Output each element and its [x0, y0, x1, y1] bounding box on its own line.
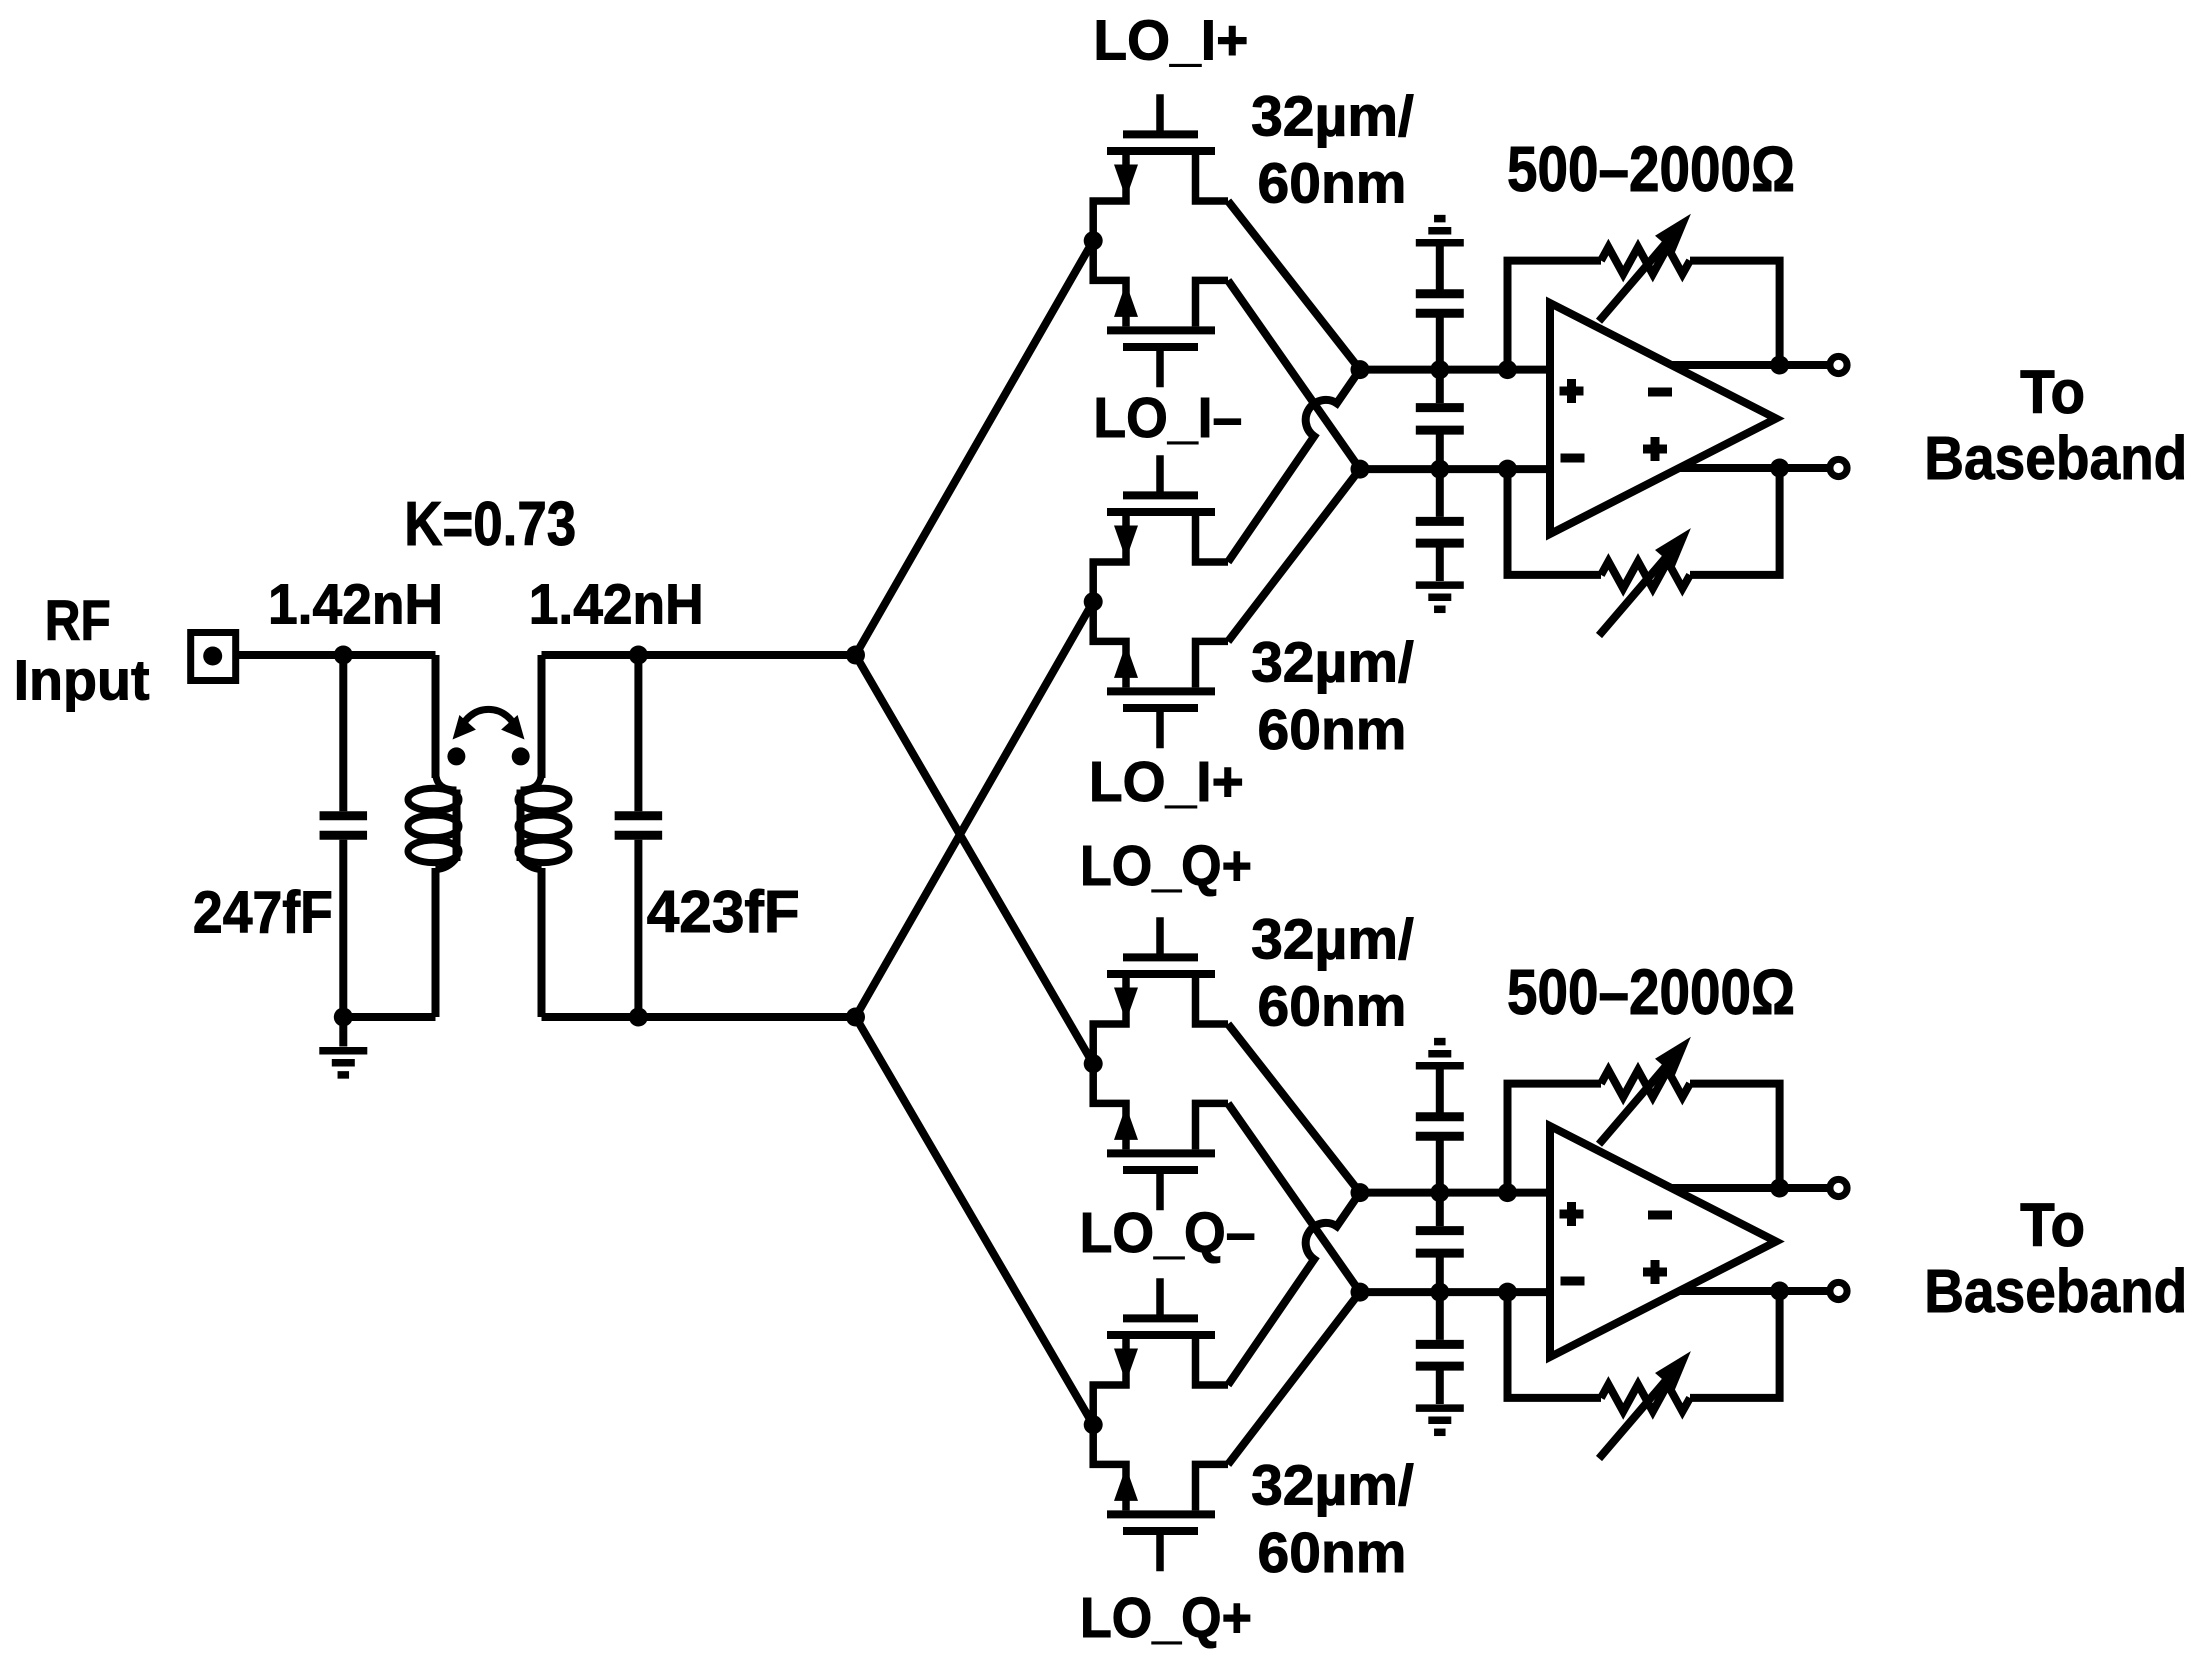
transistor M5 (Q mixer, LO_Q+) drain: [1093, 978, 1126, 1064]
transistor M4 (I mixer, LO_I+) drain: [1093, 602, 1126, 688]
capacitor C1 247fF: [339, 655, 347, 811]
transistor M1 (I mixer, LO_I+) gate: [1156, 94, 1164, 131]
transistor M2 (I mixer, LO_I-) source: [1196, 280, 1229, 326]
terminal Q out+ circle: [1830, 1179, 1847, 1196]
op-amp I TIA: [1550, 303, 1776, 534]
transistor M8 (Q mixer, LO_Q+) gate: [1156, 1534, 1164, 1571]
wire Q output-: [1679, 1287, 1829, 1295]
transistor M5 (Q mixer, LO_Q+) source: [1196, 978, 1229, 1024]
transistor M1 (I mixer, LO_I+) channel: [1107, 147, 1215, 155]
svg-text:Baseband: Baseband: [1924, 1257, 2187, 1325]
resistor I feedback top 500-2000ohm: [1508, 261, 1602, 370]
transformer polarity dot primary: [447, 747, 465, 765]
node RF+ to Q mixer junction: [1084, 1054, 1103, 1073]
wire RF+ to I mixer: [856, 241, 1094, 655]
svg-text:To: To: [2020, 1191, 2085, 1259]
resistor Q feedback top 500-2000ohm: [1508, 1084, 1602, 1193]
transistor M7 (Q mixer, LO_Q-) drain: [1093, 1339, 1126, 1425]
svg-text:60nm: 60nm: [1258, 698, 1407, 762]
svg-text:LO_Q–: LO_Q–: [1080, 1201, 1256, 1265]
svg-text:1.42nH: 1.42nH: [268, 573, 443, 637]
transistor M3 (I mixer, LO_I-) gate: [1156, 455, 1164, 492]
transistor M1 (I mixer, LO_I+) source: [1196, 155, 1229, 201]
svg-text:1.42nH: 1.42nH: [529, 573, 704, 637]
svg-text:247fF: 247fF: [193, 879, 333, 945]
transistor M5 (Q mixer, LO_Q+) gate: [1156, 917, 1164, 954]
ground below I cap bank: [1416, 581, 1464, 589]
svg-text:500–2000Ω: 500–2000Ω: [1507, 956, 1795, 1028]
capacitor C2 423fF: [634, 655, 642, 811]
capacitor I C-mid: [1436, 370, 1444, 404]
svg-text:To: To: [2020, 358, 2085, 426]
svg-text:60nm: 60nm: [1258, 152, 1407, 216]
wire RF- to I mixer: [856, 602, 1094, 1017]
capacitor Q C-bot: [1436, 1292, 1444, 1340]
transistor M7 (Q mixer, LO_Q-) gate: [1156, 1278, 1164, 1315]
transistor M6 (Q mixer, LO_Q-) source: [1196, 1103, 1229, 1149]
transistor M5 (Q mixer, LO_Q+) channel: [1107, 970, 1215, 978]
transistor M8 (Q mixer, LO_Q+) channel: [1107, 1510, 1215, 1518]
node secondary cap bottom: [629, 1008, 648, 1027]
transistor M2 (I mixer, LO_I-) drain: [1093, 241, 1126, 327]
svg-text:LO_I–: LO_I–: [1093, 386, 1242, 450]
wire I mixer out 1: [1228, 201, 1360, 370]
svg-text:LO_I+: LO_I+: [1089, 750, 1244, 814]
wire I baseband+ line: [1360, 366, 1550, 374]
transistor M4 (I mixer, LO_I+) source: [1196, 641, 1229, 687]
svg-text:423fF: 423fF: [647, 879, 800, 945]
node secondary cap top: [629, 646, 648, 665]
node primary bottom junction: [334, 1008, 353, 1027]
terminal I out- circle: [1830, 459, 1847, 476]
transistor M4 (I mixer, LO_I+) gate: [1156, 711, 1164, 748]
wire primary bottom: [343, 1013, 435, 1021]
op-amp Q TIA: [1550, 1126, 1776, 1357]
wire I mixer out 3 with crossover hop: [1228, 370, 1360, 562]
transistor M7 (Q mixer, LO_Q-) channel: [1107, 1331, 1215, 1339]
svg-text:LO_I+: LO_I+: [1093, 8, 1248, 72]
wire I output+: [1671, 361, 1829, 369]
svg-text:Input: Input: [14, 649, 150, 713]
transistor M6 (Q mixer, LO_Q-) channel: [1107, 1149, 1215, 1157]
port RF input square: [191, 633, 236, 681]
svg-text:32µm/: 32µm/: [1251, 84, 1414, 148]
capacitor Q C-mid: [1436, 1193, 1444, 1227]
wire RF+ to Q mixer: [856, 655, 1094, 1064]
svg-text:32µm/: 32µm/: [1251, 907, 1414, 971]
transistor M3 (I mixer, LO_I-) source: [1196, 516, 1229, 562]
svg-text:K=0.73: K=0.73: [404, 490, 576, 559]
transistor M8 (Q mixer, LO_Q+) source: [1196, 1464, 1229, 1510]
inductor L1 primary 1.42nH: [432, 655, 440, 778]
wire Q mixer out 2: [1228, 1103, 1360, 1292]
transistor M2 (I mixer, LO_I-) gate: [1156, 350, 1164, 387]
transistor M3 (I mixer, LO_I-) channel: [1107, 508, 1215, 516]
wire I output-: [1679, 464, 1829, 472]
transistor M1 (I mixer, LO_I+) drain: [1093, 155, 1126, 241]
transformer polarity dot secondary: [512, 747, 530, 765]
transistor M4 (I mixer, LO_I+) channel: [1107, 687, 1215, 695]
transistor M8 (Q mixer, LO_Q+) drain: [1093, 1425, 1126, 1511]
ground primary: [339, 1017, 347, 1047]
inductor L2 secondary 1.42nH: [538, 655, 546, 778]
wire Q output+: [1671, 1184, 1829, 1192]
node RF+ to I mixer junction: [1084, 231, 1103, 250]
wire RF- to Q mixer: [856, 1017, 1094, 1425]
terminal I out+ circle: [1830, 356, 1847, 373]
svg-text:LO_Q+: LO_Q+: [1080, 834, 1252, 898]
ground (inverted) above I cap bank: [1416, 239, 1464, 247]
transistor M7 (Q mixer, LO_Q-) source: [1196, 1339, 1229, 1385]
wire Q baseband- line: [1360, 1288, 1550, 1296]
svg-text:60nm: 60nm: [1258, 1521, 1407, 1585]
wire secondary top rail: [542, 651, 856, 659]
ground (inverted) above Q cap bank: [1416, 1062, 1464, 1070]
resistor I feedback bottom 500-2000ohm: [1508, 469, 1602, 575]
wire Q mixer out 1: [1228, 1024, 1360, 1193]
capacitor I C-top: [1436, 246, 1444, 291]
node RF cap junction: [334, 646, 353, 665]
node RF- to I mixer junction: [1084, 592, 1103, 611]
transistor M2 (I mixer, LO_I-) channel: [1107, 326, 1215, 334]
transistor M6 (Q mixer, LO_Q-) drain: [1093, 1064, 1126, 1150]
svg-text:32µm/: 32µm/: [1251, 631, 1414, 695]
svg-text:60nm: 60nm: [1258, 975, 1407, 1039]
svg-text:Baseband: Baseband: [1924, 424, 2187, 492]
node RF- fanout: [846, 1008, 865, 1027]
wire secondary bottom rail: [542, 1013, 856, 1021]
wire Q mixer out 4: [1228, 1292, 1360, 1464]
svg-text:500–2000Ω: 500–2000Ω: [1507, 133, 1795, 205]
transistor M3 (I mixer, LO_I-) drain: [1093, 516, 1126, 602]
capacitor I C-bot: [1436, 469, 1444, 517]
svg-text:RF: RF: [45, 589, 111, 653]
node RF+ fanout: [846, 646, 865, 665]
wire I mixer out 2: [1228, 280, 1360, 469]
svg-text:32µm/: 32µm/: [1251, 1454, 1414, 1518]
wire RF input to transformer: [239, 651, 436, 659]
wire Q mixer out 3 with crossover hop: [1228, 1193, 1360, 1385]
svg-text:LO_Q+: LO_Q+: [1080, 1586, 1252, 1650]
wire I mixer out 4: [1228, 469, 1360, 641]
node RF- to Q mixer junction: [1084, 1415, 1103, 1434]
transistor M6 (Q mixer, LO_Q-) gate: [1156, 1173, 1164, 1210]
resistor Q feedback bottom 500-2000ohm: [1508, 1292, 1602, 1398]
transformer coupling arrow K: [460, 709, 517, 733]
wire Q baseband+ line: [1360, 1189, 1550, 1197]
terminal Q out- circle: [1830, 1282, 1847, 1299]
wire I baseband- line: [1360, 465, 1550, 473]
ground below Q cap bank: [1416, 1404, 1464, 1412]
capacitor Q C-top: [1436, 1069, 1444, 1114]
